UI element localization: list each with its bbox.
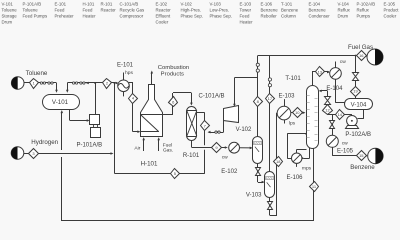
svg-text:17: 17 xyxy=(268,96,273,101)
svg-text:E-102: E-102 xyxy=(221,169,238,175)
svg-text:R-101: R-101 xyxy=(101,2,113,7)
svg-text:Cooler: Cooler xyxy=(384,13,397,18)
svg-text:Condenser: Condenser xyxy=(309,13,331,18)
svg-text:Benzene: Benzene xyxy=(309,8,327,13)
svg-text:C-101A/B: C-101A/B xyxy=(198,93,224,99)
svg-text:Phase Sep.: Phase Sep. xyxy=(210,13,232,18)
svg-text:Phase Sep.: Phase Sep. xyxy=(181,13,203,18)
svg-text:Toluene: Toluene xyxy=(23,8,39,13)
svg-text:E-106: E-106 xyxy=(261,2,273,7)
svg-text:16: 16 xyxy=(359,53,364,58)
svg-text:Storage: Storage xyxy=(2,13,18,18)
svg-text:hps: hps xyxy=(125,70,133,76)
svg-text:cw: cw xyxy=(342,142,348,147)
svg-text:V-103: V-103 xyxy=(210,2,222,7)
svg-text:Fuel Gas: Fuel Gas xyxy=(348,44,373,51)
svg-text:15: 15 xyxy=(359,153,364,158)
svg-text:E-101: E-101 xyxy=(55,2,67,7)
svg-text:E-106: E-106 xyxy=(286,175,303,181)
svg-text:E-101: E-101 xyxy=(117,63,134,69)
svg-text:High-Pres.: High-Pres. xyxy=(181,8,202,13)
svg-text:E-102: E-102 xyxy=(156,2,168,7)
svg-text:Feed: Feed xyxy=(83,8,93,13)
svg-text:Products: Products xyxy=(161,72,184,78)
svg-text:Drum: Drum xyxy=(338,13,349,18)
svg-text:Benzene: Benzene xyxy=(261,8,279,13)
svg-text:Product: Product xyxy=(384,8,400,13)
svg-text:Compressor: Compressor xyxy=(120,13,144,18)
svg-text:Column: Column xyxy=(281,13,297,18)
svg-text:Drum: Drum xyxy=(2,19,13,24)
svg-text:E-103: E-103 xyxy=(240,2,252,7)
svg-text:Toluene: Toluene xyxy=(26,70,48,77)
svg-text:E-105: E-105 xyxy=(384,2,396,7)
svg-text:Air: Air xyxy=(134,146,140,152)
svg-text:Reactor: Reactor xyxy=(101,8,117,13)
svg-text:Cooler: Cooler xyxy=(156,19,169,24)
svg-text:Low-Pres.: Low-Pres. xyxy=(210,8,230,13)
svg-text:E-104: E-104 xyxy=(309,2,321,7)
svg-text:H-101: H-101 xyxy=(141,160,158,167)
svg-text:P-102A/B: P-102A/B xyxy=(345,132,371,138)
svg-text:E-103: E-103 xyxy=(278,94,295,100)
svg-text:Pumps: Pumps xyxy=(357,13,371,18)
svg-text:Benzene: Benzene xyxy=(281,8,299,13)
svg-text:P-102A/B: P-102A/B xyxy=(357,2,376,7)
svg-text:E-104: E-104 xyxy=(326,86,343,92)
svg-text:Heater: Heater xyxy=(83,13,97,18)
svg-text:Hydrogen: Hydrogen xyxy=(31,139,58,146)
svg-text:V-103: V-103 xyxy=(246,192,262,198)
svg-text:V-102: V-102 xyxy=(181,2,193,7)
svg-text:P-101A/B: P-101A/B xyxy=(76,143,102,149)
svg-text:Reboiler: Reboiler xyxy=(261,13,278,18)
svg-text:V-102: V-102 xyxy=(236,127,252,133)
svg-text:Preheater: Preheater xyxy=(55,13,75,18)
svg-text:T-101: T-101 xyxy=(285,76,301,82)
svg-text:V-104: V-104 xyxy=(351,103,367,109)
svg-text:V-101: V-101 xyxy=(2,2,14,7)
svg-text:Reflux: Reflux xyxy=(357,8,370,13)
svg-text:Recycle Gas: Recycle Gas xyxy=(120,8,145,13)
svg-text:Heater: Heater xyxy=(240,19,254,24)
svg-text:Combustion: Combustion xyxy=(158,65,189,71)
svg-text:10: 10 xyxy=(295,110,300,115)
svg-text:T-101: T-101 xyxy=(281,2,293,7)
svg-text:Reactor: Reactor xyxy=(156,8,172,13)
svg-text:P-101A/B: P-101A/B xyxy=(23,2,42,7)
svg-text:cw: cw xyxy=(222,156,228,161)
svg-text:Gas.: Gas. xyxy=(163,147,173,153)
svg-text:H-101: H-101 xyxy=(83,2,95,7)
svg-text:18: 18 xyxy=(276,159,281,164)
svg-text:mps: mps xyxy=(302,166,312,171)
svg-text:cw: cw xyxy=(340,60,346,65)
svg-text:Benzene: Benzene xyxy=(350,164,375,171)
svg-text:C-101A/B: C-101A/B xyxy=(120,2,139,7)
svg-text:14: 14 xyxy=(338,112,343,117)
svg-text:Feed: Feed xyxy=(240,13,250,18)
svg-text:Toluene: Toluene xyxy=(2,8,18,13)
svg-text:R-101: R-101 xyxy=(183,153,200,159)
svg-text:13: 13 xyxy=(318,69,323,74)
svg-text:12: 12 xyxy=(325,108,330,113)
svg-text:19: 19 xyxy=(353,89,358,94)
svg-text:lps: lps xyxy=(289,121,296,127)
svg-text:V-104: V-104 xyxy=(338,2,350,7)
svg-text:V-101: V-101 xyxy=(52,99,69,106)
svg-text:Reflux: Reflux xyxy=(338,8,351,13)
svg-text:E-105: E-105 xyxy=(337,149,354,155)
svg-text:Feed Pumps: Feed Pumps xyxy=(23,13,48,18)
svg-text:Effluent: Effluent xyxy=(156,13,171,18)
svg-text:Feed: Feed xyxy=(55,8,65,13)
svg-text:Tower: Tower xyxy=(240,8,252,13)
